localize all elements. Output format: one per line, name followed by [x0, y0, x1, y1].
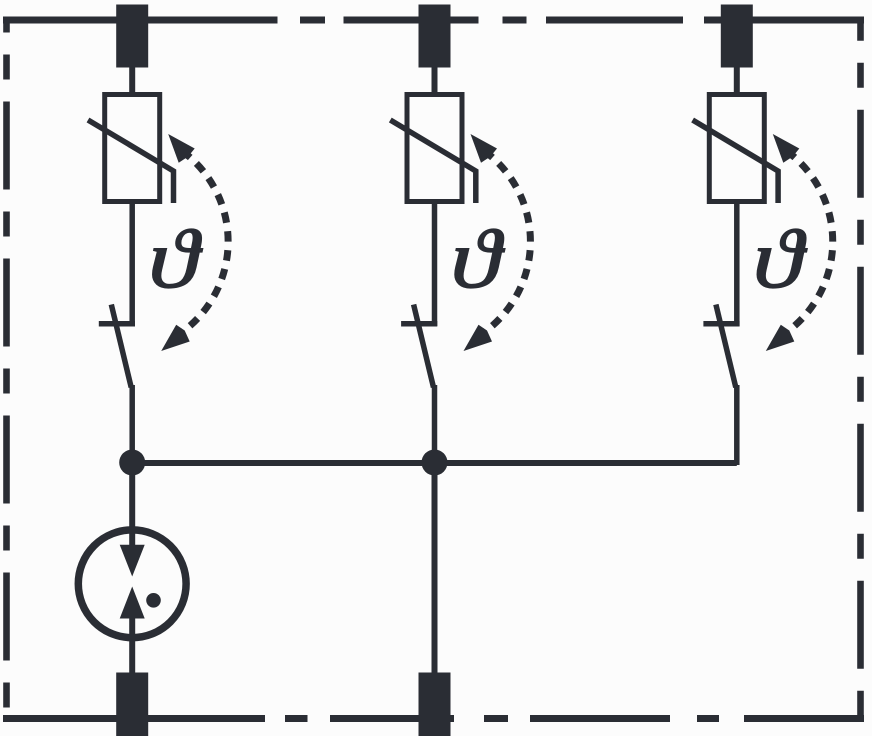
- wire: bus to gas discharge tube F4: [129, 462, 135, 546]
- arrowhead (bottom, pointing away from switch F1): [161, 325, 190, 351]
- dashed arc: thermal disconnect action arrow for F2: [485, 155, 531, 332]
- svg-text:ϑ: ϑ: [753, 213, 808, 306]
- wire: varistor RV2 to thermal disconnector F2: [432, 201, 438, 326]
- enclosure border top (dash-dot line): [3, 17, 864, 24]
- thermal disconnector F1 switch blade: [111, 305, 131, 388]
- wire: switch blade F1 to bus: [129, 385, 135, 465]
- wire: switch blade F2 to bus: [432, 385, 438, 465]
- wire: terminal L2 to varistor RV2: [432, 66, 438, 95]
- varistor RV2 diagonal stroke: [390, 120, 476, 203]
- wire: terminal L1 to varistor RV1: [129, 66, 135, 95]
- spark gap F4 upper electrode (down arrow): [120, 545, 145, 577]
- terminal L1 (top connection block): [116, 5, 148, 68]
- wire: terminal L3 to varistor RV3: [734, 66, 740, 95]
- arrowhead (top, pointing at varistor RV3): [773, 134, 800, 163]
- thermal disconnector F3 fixed contact bar: [703, 321, 739, 327]
- svg-text:ϑ: ϑ: [148, 213, 203, 306]
- gas discharge tube F4 (spark gap, circle): [78, 530, 186, 638]
- varistor RV2 (rectangle body): [407, 95, 462, 202]
- terminal L3 (top connection block): [721, 5, 753, 68]
- dashed arc: thermal disconnect action arrow for F3: [787, 155, 833, 332]
- junction node: branch 1 to bus: [119, 450, 145, 476]
- wire: varistor RV1 to thermal disconnector F1: [129, 201, 135, 326]
- varistor RV1 (rectangle body): [105, 95, 160, 202]
- wire: varistor RV3 to thermal disconnector F3: [734, 201, 740, 326]
- spark gap F4 lower electrode (up arrow): [120, 587, 145, 619]
- thermal disconnector F2 switch blade: [414, 305, 434, 388]
- arrowhead (bottom, pointing away from switch F3): [766, 325, 795, 351]
- varistor RV3 (rectangle body): [709, 95, 764, 202]
- arrowhead (bottom, pointing away from switch F2): [464, 325, 493, 351]
- thermal disconnector F2 fixed contact bar: [401, 321, 437, 327]
- junction node: branch 2 to bus: [422, 450, 448, 476]
- wire: switch blade F3 to bus: [734, 385, 740, 465]
- terminal N/PE (bottom connection block, branch 1): [116, 673, 148, 736]
- thermal disconnector F3 switch blade: [716, 305, 736, 388]
- enclosure border left (dash-dot line): [3, 17, 10, 725]
- wire: bus to bottom terminal (branch 2): [432, 462, 438, 674]
- varistor RV1 diagonal stroke: [88, 120, 174, 203]
- arrowhead (top, pointing at varistor RV2): [471, 134, 498, 163]
- svg-text:ϑ: ϑ: [450, 213, 505, 306]
- dashed arc: thermal disconnect action arrow for F1: [182, 155, 228, 332]
- enclosure border bottom (dash-dot line): [3, 715, 864, 722]
- arrowhead (top, pointing at varistor RV1): [168, 134, 195, 163]
- varistor RV3 diagonal stroke: [693, 120, 779, 203]
- enclosure border right (dash-dot line): [857, 20, 864, 724]
- terminal N (bottom connection block, branch 2): [419, 673, 451, 736]
- gas-filled indicator dot of F4: [146, 593, 161, 608]
- wire: gas discharge tube F4 to bottom terminal: [129, 617, 135, 674]
- terminal L2 (top connection block): [419, 5, 451, 68]
- thermal disconnector F1 fixed contact bar: [99, 321, 135, 327]
- wire: common bus from branch 1 to branch 3: [132, 460, 737, 466]
